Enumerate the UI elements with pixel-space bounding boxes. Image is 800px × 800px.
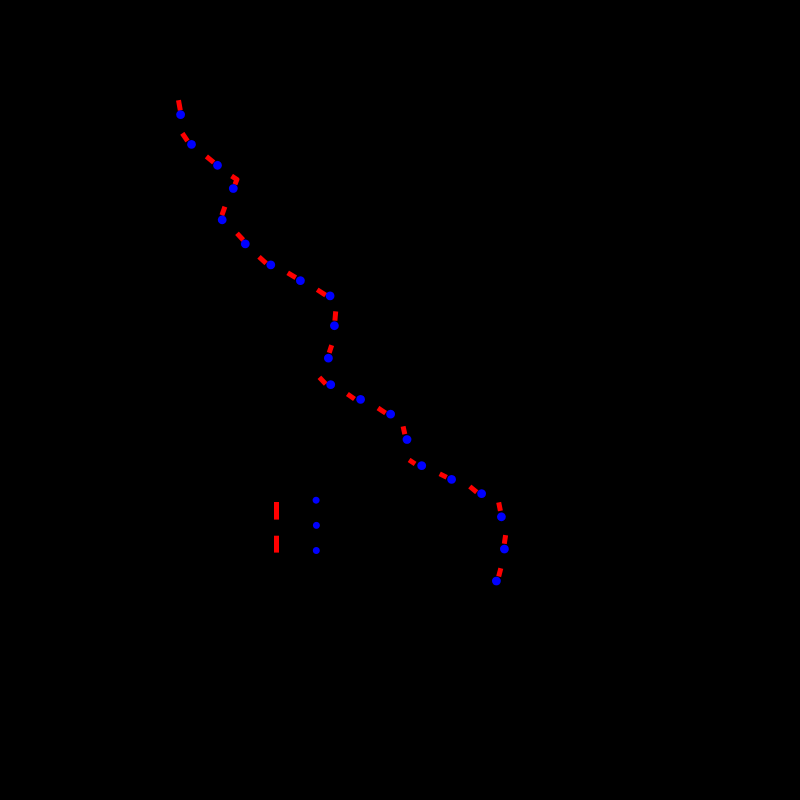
point P4 bbox=[229, 184, 238, 193]
point P6 bbox=[241, 240, 250, 249]
point P19 bbox=[497, 512, 506, 521]
wire dash D6 bbox=[237, 233, 243, 240]
wire dash D21 bbox=[499, 568, 501, 576]
point P21 bbox=[492, 577, 501, 586]
point P14 bbox=[386, 410, 395, 419]
point P18 bbox=[477, 489, 486, 498]
wire dash D5 bbox=[222, 207, 225, 216]
wire dash D16 bbox=[409, 460, 415, 464]
wire dash D10 bbox=[332, 311, 338, 320]
wire dash D12 bbox=[319, 377, 325, 384]
point P8 bbox=[296, 276, 305, 285]
wire dash D11 bbox=[329, 345, 332, 353]
wire dash D2 bbox=[182, 133, 187, 141]
legend dash LD1 bbox=[274, 502, 279, 520]
wire dash D19 bbox=[499, 502, 501, 511]
wire dash D9 bbox=[317, 290, 325, 295]
point P15 bbox=[403, 435, 412, 444]
wire dash D7 bbox=[259, 257, 266, 264]
point P5 bbox=[218, 215, 227, 224]
legend point L1 bbox=[313, 497, 320, 504]
wire dash D3 bbox=[206, 156, 213, 162]
point P20 bbox=[500, 545, 509, 554]
point P7 bbox=[266, 261, 275, 270]
wire dash D18 bbox=[470, 487, 477, 493]
point P2 bbox=[187, 140, 196, 149]
wire dash D13 bbox=[347, 394, 354, 399]
point P16 bbox=[417, 461, 426, 470]
wire dash D4 (bent) bbox=[232, 176, 237, 184]
point P1 bbox=[176, 110, 185, 119]
point P17 bbox=[447, 475, 456, 484]
wire dash D14 bbox=[378, 408, 386, 413]
point P11 bbox=[324, 354, 333, 363]
point P12 bbox=[326, 380, 335, 389]
wire dash D8 bbox=[288, 273, 296, 278]
legend dash LD2 bbox=[274, 536, 279, 553]
wire dash D15 bbox=[403, 426, 405, 434]
legend point L3 bbox=[313, 547, 320, 554]
point P3 bbox=[213, 161, 222, 170]
wire dash D20 bbox=[504, 535, 505, 544]
legend point L2 bbox=[313, 522, 320, 529]
point P13 bbox=[356, 395, 365, 404]
wire dash D1 bbox=[179, 100, 181, 110]
wire dash D17 bbox=[440, 474, 447, 478]
point P10 bbox=[330, 321, 339, 330]
point P9 bbox=[326, 292, 335, 301]
